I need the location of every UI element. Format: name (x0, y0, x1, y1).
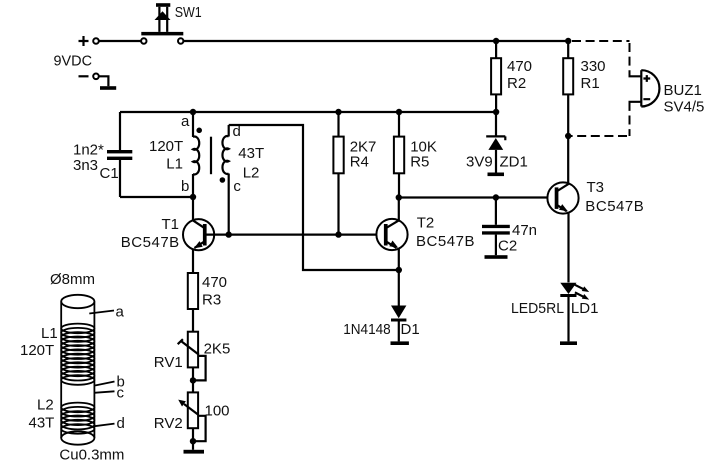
ground battery (100, 86, 116, 90)
svg-text:BC547B: BC547B (121, 234, 180, 251)
node rail2 R5 (396, 109, 402, 115)
node top R1 (565, 38, 571, 44)
node RV1 bottom (190, 377, 196, 383)
LED LD1 (511, 283, 598, 342)
svg-text:43T: 43T (29, 415, 55, 432)
svg-text:LD1: LD1 (571, 300, 599, 317)
node C2 top (493, 194, 499, 200)
wire d net (229, 125, 399, 270)
transistor T3 (547, 179, 643, 282)
coil former drawing (20, 271, 125, 463)
svg-text:470: 470 (507, 58, 532, 75)
node T1 base / L2 c (226, 231, 232, 237)
lead a (89, 311, 114, 314)
svg-text:b: b (181, 178, 189, 195)
diode D1 (343, 270, 419, 341)
svg-text:2K5: 2K5 (204, 341, 231, 358)
svg-text:R4: R4 (350, 154, 369, 171)
node T2 emitter (396, 267, 402, 273)
ground C2 (485, 255, 508, 259)
wire plus to switch (99, 40, 141, 42)
svg-text:T3: T3 (587, 179, 605, 196)
node R1 bottom dashed (565, 133, 571, 139)
wire second rail (120, 111, 496, 113)
svg-text:1N4148: 1N4148 (343, 321, 391, 338)
svg-text:470: 470 (202, 274, 227, 291)
svg-text:47n: 47n (512, 222, 537, 239)
svg-text:R5: R5 (410, 154, 429, 171)
winding L1 (61, 324, 94, 385)
zener ZD1 (466, 112, 528, 173)
svg-text:d: d (117, 415, 125, 432)
svg-text:C1: C1 (100, 165, 119, 182)
svg-text:1n2*: 1n2* (73, 142, 104, 159)
svg-text:T1: T1 (162, 216, 180, 233)
svg-text:BC547B: BC547B (416, 233, 475, 250)
svg-text:Cu0.3mm: Cu0.3mm (59, 447, 124, 463)
node rail2 R2 (493, 109, 499, 115)
resistor R5 (394, 112, 437, 198)
inductor L1 (149, 112, 202, 197)
capacitor C2 (482, 198, 537, 256)
svg-text:L2: L2 (243, 165, 260, 182)
svg-text:c: c (233, 178, 241, 195)
ground ZD1 (488, 173, 505, 177)
resistor R2 (491, 41, 532, 112)
svg-text:a: a (181, 113, 190, 130)
node R4 bottom (335, 231, 341, 237)
transistor T2 (376, 198, 474, 271)
cylinder body (61, 295, 94, 308)
svg-text:c: c (117, 385, 125, 402)
node RV2 bottom (190, 438, 196, 444)
svg-text:330: 330 (581, 58, 606, 75)
wire dashed buzzer net (568, 41, 641, 136)
wire top rail (183, 40, 568, 42)
svg-text:L1: L1 (166, 156, 183, 173)
ground D1 (391, 341, 409, 345)
capacitor C1 (73, 142, 132, 182)
svg-text:SW1: SW1 (175, 4, 202, 21)
svg-text:BC547B: BC547B (585, 198, 644, 215)
resistor R4 (333, 112, 376, 235)
node rail2 R4 (335, 109, 341, 115)
buzzer BUZ1 (641, 70, 704, 115)
ground RV2 (184, 450, 205, 454)
resistor R3 (188, 273, 227, 332)
svg-text:100: 100 (205, 403, 230, 420)
svg-text:3n3: 3n3 (73, 157, 98, 174)
inductor L2 (220, 125, 265, 235)
battery minus terminal (79, 74, 99, 80)
battery plus terminal (79, 36, 99, 46)
svg-text:ZD1: ZD1 (500, 154, 528, 171)
svg-text:LED5RL: LED5RL (511, 300, 564, 317)
ground LED (560, 341, 577, 345)
trimmer RV2 (154, 392, 230, 449)
node rail2 L1 (190, 109, 196, 115)
transistor T1 (121, 197, 215, 273)
node R5 bottom (396, 194, 402, 200)
svg-text:120T: 120T (20, 342, 54, 359)
core bar (210, 137, 212, 175)
svg-text:R1: R1 (581, 75, 600, 92)
wire R5 to C2 to T3 base (399, 196, 548, 198)
winding L2 (61, 403, 94, 434)
svg-text:R2: R2 (507, 75, 526, 92)
resistor R1 (563, 41, 605, 184)
trimmer RV1 (154, 332, 231, 393)
svg-text:Ø8mm: Ø8mm (50, 271, 95, 288)
wire minus to ground (99, 76, 109, 86)
switch SW1 (141, 3, 183, 44)
svg-text:D1: D1 (401, 321, 420, 338)
svg-text:RV1: RV1 (154, 354, 183, 371)
lead c (94, 391, 115, 393)
svg-text:9VDC: 9VDC (54, 52, 93, 69)
svg-text:BUZ1: BUZ1 (664, 82, 702, 99)
lead b (95, 382, 115, 386)
svg-text:L1: L1 (41, 325, 58, 342)
svg-text:T2: T2 (417, 215, 435, 232)
svg-text:SV4/5: SV4/5 (664, 98, 705, 115)
node top R2 (493, 38, 499, 44)
svg-text:C2: C2 (498, 238, 517, 255)
wire base net (207, 234, 385, 236)
wire C1 branch (120, 112, 193, 197)
lead d (94, 424, 115, 427)
svg-text:RV2: RV2 (154, 415, 183, 432)
svg-text:43T: 43T (238, 145, 264, 162)
svg-text:3V9: 3V9 (466, 154, 493, 171)
svg-text:R3: R3 (202, 292, 221, 309)
svg-text:L2: L2 (37, 397, 54, 414)
svg-text:a: a (116, 304, 125, 321)
svg-text:120T: 120T (149, 138, 183, 155)
